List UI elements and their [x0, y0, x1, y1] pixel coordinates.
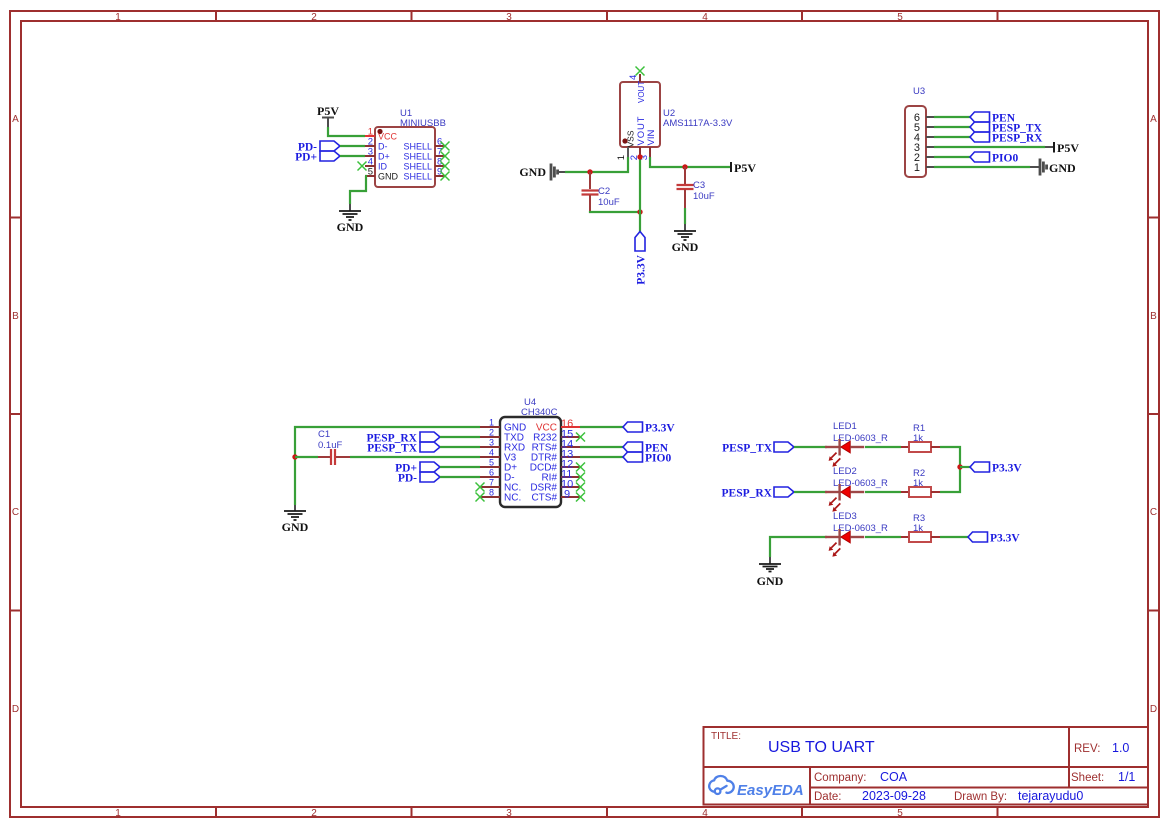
ground symbol below LED3 — [757, 557, 784, 588]
svg-text:3: 3 — [489, 438, 494, 448]
U2SECTION — [519, 67, 756, 285]
row ticks left — [10, 218, 21, 611]
svg-text:4: 4 — [628, 75, 639, 80]
svg-text:GND: GND — [672, 240, 699, 254]
net flag P3.3V (LED3) — [968, 532, 1020, 545]
svg-text:D+: D+ — [378, 152, 390, 162]
no-connect X on U4 pin12 — [576, 463, 585, 472]
svg-text:7: 7 — [489, 478, 494, 488]
svg-text:GND: GND — [1049, 161, 1076, 175]
svg-text:LED-0603_R: LED-0603_R — [833, 478, 888, 489]
GND flag left of U2 — [519, 164, 565, 181]
wire R3 to P3.3V flag — [940, 536, 968, 538]
U3 pin1 stub — [926, 166, 934, 168]
svg-text:10uF: 10uF — [693, 191, 715, 202]
svg-text:5: 5 — [368, 167, 373, 178]
wire U3 pin6 to PEN flag — [934, 116, 970, 118]
U3 pin6 stub — [926, 116, 934, 118]
svg-text:P3.3V: P3.3V — [636, 254, 648, 284]
svg-text:1: 1 — [115, 808, 121, 819]
wire PD+ to U4 pin5 — [440, 466, 480, 468]
svg-text:A: A — [1150, 114, 1157, 125]
net flag PD- — [298, 141, 340, 154]
resistor R1 — [901, 442, 940, 452]
capacitor C3 — [677, 167, 694, 208]
wire LED3 to R3 — [865, 536, 901, 538]
svg-text:GND: GND — [282, 520, 309, 534]
capacitor C2 — [582, 172, 599, 211]
column ticks top — [216, 11, 998, 21]
svg-text:C: C — [12, 507, 19, 518]
svg-text:PESP_TX: PESP_TX — [722, 443, 773, 455]
net flag PESP_TX (U4 pin3) — [367, 442, 440, 455]
wire U3 pin2 to PIO0 flag — [934, 156, 970, 158]
svg-text:LED-0603_R: LED-0603_R — [833, 433, 888, 444]
wire GND to U2 pin1 — [565, 157, 628, 172]
wire U4 pin13 to PIO0 flag — [580, 456, 623, 458]
wire C2 bottom to P3.3V rail — [590, 211, 640, 212]
U1 pin9 stub — [435, 175, 445, 177]
svg-text:SHELL: SHELL — [403, 142, 432, 152]
U2 pin1 stub — [627, 147, 629, 157]
svg-text:tejarayudu0: tejarayudu0 — [1018, 789, 1083, 803]
U1 pin1 stub (VCC, red) — [365, 135, 375, 137]
svg-text:PIO0: PIO0 — [992, 153, 1018, 165]
U1 pin2 stub — [365, 145, 375, 147]
EasyEDA logo cloud — [709, 776, 734, 794]
svg-text:4: 4 — [489, 448, 494, 458]
wire PESP_TX to U4 pin3 — [440, 446, 480, 448]
wire PD- to U1 pin2 — [340, 145, 365, 147]
net flag PESP_RX (LED2) — [722, 487, 794, 500]
no-connect X on U4 pin9 — [576, 493, 585, 502]
svg-text:4: 4 — [702, 808, 708, 819]
svg-text:PESP_RX: PESP_RX — [992, 133, 1043, 145]
net flag PD+ — [295, 151, 340, 164]
wire junction to P3.3V flag — [960, 466, 970, 468]
svg-text:GND: GND — [757, 574, 784, 588]
no-connect X on U1 pin8 — [441, 162, 450, 171]
wire U3 pin1 to GND — [934, 166, 1030, 168]
U4 pin numbers left 1-8 — [489, 418, 494, 498]
svg-text:GND: GND — [378, 172, 399, 182]
no-connect X on U1 pin9 — [441, 172, 450, 181]
svg-text:2023-09-28: 2023-09-28 — [862, 789, 926, 803]
svg-text:B: B — [12, 311, 19, 322]
no-connect X on U4 pin8 — [476, 493, 485, 502]
svg-text:Sheet:: Sheet: — [1071, 772, 1104, 784]
svg-text:SHELL: SHELL — [403, 152, 432, 162]
power flag P5V (right of U3) — [1045, 141, 1079, 155]
U1 pin8 stub — [435, 165, 445, 167]
junction at U2 pin2 — [637, 154, 642, 159]
svg-text:6: 6 — [489, 468, 494, 478]
svg-text:VSS: VSS — [626, 130, 636, 147]
U1 pin4 stub — [365, 165, 375, 167]
U3 pin5 stub — [926, 126, 934, 128]
U1 pin3 stub — [365, 155, 375, 157]
svg-text:8: 8 — [489, 488, 494, 498]
net flag PEN (U4 pin14) — [623, 442, 669, 455]
svg-text:10uF: 10uF — [598, 197, 620, 208]
net flag PESP_RX — [970, 132, 1043, 145]
wire PESP_RX to LED2 — [794, 491, 827, 493]
no-connect X on U1 pin6 — [441, 142, 450, 151]
ground symbol right of U3 (rotated) — [1030, 159, 1076, 176]
wire rail to R2 — [940, 467, 960, 492]
svg-text:CTS#: CTS# — [531, 493, 557, 504]
svg-text:D: D — [1150, 704, 1157, 715]
U4 pin16 stub (VCC red) — [561, 426, 580, 428]
wire GND to LED3 — [770, 537, 827, 557]
svg-text:P5V: P5V — [317, 104, 339, 118]
svg-text:C1: C1 — [318, 429, 330, 440]
no-connect X on U4 pin15 — [576, 433, 585, 442]
svg-text:GND: GND — [519, 165, 546, 179]
svg-text:P5V: P5V — [734, 161, 756, 175]
U4 right pin stubs 15-9 — [561, 437, 580, 497]
no-connect X on U1 pin4 — [358, 162, 367, 171]
no-connect X on U4 pin10 — [576, 483, 585, 492]
svg-text:PD-: PD- — [398, 473, 417, 485]
wire R1 to P3.3V rail — [940, 447, 960, 467]
svg-text:PD+: PD+ — [295, 152, 317, 164]
net flag PESP_TX (LED1) — [722, 442, 794, 455]
svg-text:P3.3V: P3.3V — [992, 463, 1022, 475]
svg-text:U3: U3 — [913, 86, 925, 97]
wire PD+ to U1 pin3 — [340, 155, 365, 157]
U4SECTION — [282, 397, 676, 534]
svg-text:4: 4 — [702, 12, 708, 23]
svg-text:3: 3 — [506, 12, 512, 23]
wire U2 pin3 to P5V — [650, 157, 730, 167]
U4 pin numbers right 15-9 — [561, 429, 573, 501]
junction at P3.3V tap — [957, 464, 962, 469]
TITLEBLOCK — [704, 727, 1149, 805]
U3SECTION — [905, 86, 1079, 177]
net flag PESP_TX — [970, 122, 1043, 135]
net flag P3.3V (pointing up) — [635, 232, 648, 285]
svg-text:PIO0: PIO0 — [645, 453, 671, 465]
U2 pin1 marker dot — [622, 138, 627, 143]
power flag P5V (top left) — [317, 104, 339, 127]
svg-text:1: 1 — [914, 162, 920, 174]
LEDSECTION — [722, 421, 1023, 588]
svg-text:PESP_RX: PESP_RX — [722, 488, 773, 500]
U2 pin2 stub — [639, 147, 641, 157]
junction on GND wire at C2 — [587, 169, 592, 174]
junction at C2 rail — [637, 209, 642, 214]
ground symbol below left rail — [282, 505, 309, 534]
svg-text:LED-0603_R: LED-0603_R — [833, 523, 888, 534]
wire C3 to ground — [684, 208, 686, 224]
U4 right pin names — [530, 433, 558, 504]
U1SECTION — [295, 104, 449, 234]
svg-text:Date:: Date: — [814, 791, 842, 803]
svg-text:Company:: Company: — [814, 772, 866, 784]
svg-text:P3.3V: P3.3V — [645, 423, 675, 435]
svg-text:1: 1 — [489, 418, 494, 428]
wire U3 pin5 to PESP_TX flag — [934, 126, 970, 128]
svg-text:P5V: P5V — [1057, 141, 1079, 155]
svg-text:LED1: LED1 — [833, 421, 857, 432]
power flag P5V (right of C3) — [731, 161, 756, 175]
svg-text:5: 5 — [897, 808, 903, 819]
svg-text:VIN: VIN — [646, 130, 657, 146]
svg-text:SHELL: SHELL — [403, 172, 432, 182]
wire P5V to U1 pin1 — [328, 127, 365, 136]
svg-text:GND: GND — [337, 220, 364, 234]
svg-text:USB TO UART: USB TO UART — [768, 739, 875, 756]
U1 pin7 stub — [435, 155, 445, 157]
resistor R2 — [901, 487, 940, 497]
ground symbol below C3 — [672, 224, 699, 254]
connector U3 body — [905, 106, 926, 177]
U3 pin3 stub — [926, 146, 934, 148]
svg-text:C2: C2 — [598, 186, 610, 197]
ground symbol below U1 — [337, 204, 364, 234]
connector U1 body — [375, 127, 435, 187]
svg-text:D-: D- — [378, 142, 388, 152]
svg-text:5: 5 — [897, 12, 903, 23]
net flag PD+ (U4 pin5) — [395, 462, 440, 475]
wire U4 pin14 to PEN flag — [580, 446, 623, 448]
diode LED1 — [825, 439, 864, 467]
junction at C3 — [682, 164, 687, 169]
svg-text:Drawn By:: Drawn By: — [954, 791, 1007, 803]
regulator U2 body — [620, 82, 660, 147]
svg-text:2: 2 — [489, 428, 494, 438]
svg-text:P3.3V: P3.3V — [990, 533, 1020, 545]
svg-text:EasyEDA: EasyEDA — [737, 782, 804, 799]
wire PD- to U4 pin6 — [440, 476, 480, 478]
svg-text:C: C — [1150, 507, 1157, 518]
IC U4 body — [500, 417, 561, 507]
wire PESP_TX to LED1 — [794, 446, 827, 448]
wire U3 pin3 to P5V — [934, 146, 1045, 148]
svg-text:0.1uF: 0.1uF — [318, 440, 342, 451]
diode LED2 — [825, 484, 864, 512]
svg-text:COA: COA — [880, 770, 908, 784]
wire U4 pin16 to P3.3V flag — [580, 426, 623, 428]
U4 left pin names — [504, 423, 526, 504]
no-connect X on U1 pin7 — [441, 152, 450, 161]
U3 pin2 stub — [926, 156, 934, 158]
U3 pin4 stub — [926, 136, 934, 138]
svg-text:VCC: VCC — [378, 132, 398, 142]
svg-text:1.0: 1.0 — [1112, 741, 1129, 755]
svg-text:VOUT: VOUT — [637, 81, 646, 103]
junction at C1 branch — [292, 454, 297, 459]
U4 left pin stubs 1-8 — [480, 427, 500, 497]
resistor R3 — [901, 532, 940, 542]
no-connect X on U4 pin11 — [576, 473, 585, 482]
wire U2 pin2 down to P3.3V flag — [639, 157, 641, 232]
svg-text:AMS1117A-3.3V: AMS1117A-3.3V — [663, 118, 733, 129]
net flag PEN — [970, 112, 1016, 125]
U2 pin4 stub (top) — [639, 74, 641, 82]
no-connect X on U2 pin4 — [636, 67, 645, 76]
svg-text:2: 2 — [311, 12, 317, 23]
svg-text:SHELL: SHELL — [403, 162, 432, 172]
net flag P3.3V (U4 pin16) — [623, 422, 675, 435]
U1 pin6 stub — [435, 145, 445, 147]
wire U3 pin4 to PESP_RX flag — [934, 136, 970, 138]
svg-text:PESP_TX: PESP_TX — [367, 443, 418, 455]
svg-text:1: 1 — [616, 155, 627, 160]
svg-text:5: 5 — [489, 458, 494, 468]
row ticks right — [1148, 218, 1159, 611]
svg-text:D: D — [12, 704, 19, 715]
net flag PIO0 (U4 pin13) — [623, 452, 671, 465]
U1 pin5 stub — [365, 175, 375, 177]
wire U4 pin1 to left rail — [295, 427, 480, 505]
net flag PD- (U4 pin6) — [398, 472, 440, 485]
svg-text:B: B — [1150, 311, 1157, 322]
svg-text:A: A — [12, 114, 19, 125]
no-connect X on U4 pin7 — [476, 483, 485, 492]
svg-text:9: 9 — [564, 489, 570, 501]
wire PESP_RX to U4 pin2 — [440, 436, 480, 438]
title block grid lines — [704, 727, 1149, 805]
diode LED3 — [825, 529, 864, 557]
svg-text:3: 3 — [506, 808, 512, 819]
net flag PESP_RX (U4 pin2) — [367, 432, 440, 445]
wire LED2 to R2 — [865, 491, 901, 493]
svg-text:LED3: LED3 — [833, 511, 857, 522]
wire U1 pin5 to ground — [350, 176, 366, 204]
wire C1 to U4 pin4 — [350, 456, 480, 458]
wire LED1 to R1 — [865, 446, 901, 448]
svg-text:TITLE:: TITLE: — [711, 731, 741, 742]
net flag PIO0 — [970, 152, 1018, 165]
U1 pin1 marker dot — [377, 129, 382, 134]
svg-text:2: 2 — [311, 808, 317, 819]
svg-text:1: 1 — [115, 12, 121, 23]
net flag P3.3V (LED1/LED2) — [970, 462, 1022, 475]
svg-text:LED2: LED2 — [833, 466, 857, 477]
svg-text:NC.: NC. — [504, 493, 521, 504]
capacitor C1 — [295, 449, 350, 465]
column ticks bottom — [216, 807, 998, 817]
svg-text:C3: C3 — [693, 180, 705, 191]
U2 pin3 stub — [649, 147, 651, 157]
svg-text:ID: ID — [378, 162, 388, 172]
svg-text:1/1: 1/1 — [1118, 770, 1135, 784]
svg-text:REV:: REV: — [1074, 743, 1100, 755]
